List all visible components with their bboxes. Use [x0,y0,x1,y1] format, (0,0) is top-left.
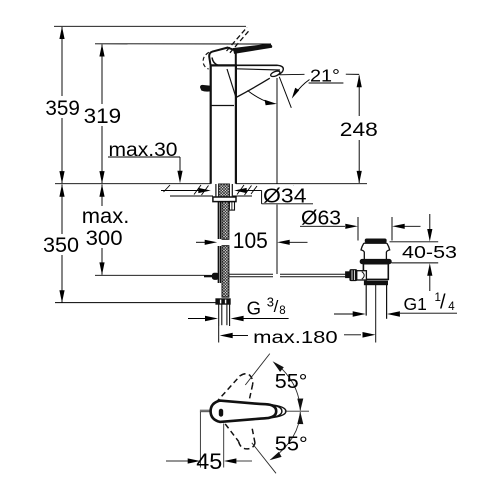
45 extension lines [199,412,201,468]
svg-text:/: / [440,291,446,313]
label 319 [81,104,123,128]
leader 21° [280,73,305,76]
55° rays [245,354,269,385]
deck section hatching [164,185,295,195]
svg-text:G: G [247,298,261,319]
dimension line 319 (x=102) [99,44,104,184]
spout top edge [236,64,278,66]
lever swing dashed arcs [203,52,209,69]
svg-text:300: 300 [86,227,123,250]
svg-text:55°: 55° [275,432,308,455]
dimension G3/8 arrows [188,316,289,322]
handle rotated -55° (dashed) [225,424,255,449]
dimension line 350 (x=62, below deck) [59,184,64,303]
label max. 300 [79,204,131,250]
svg-text:Ø34: Ø34 [263,185,307,207]
dimension line max.300 (x=102, below deck) [99,184,104,275]
extension line max300 / pop-up rod level [95,274,204,276]
left nub (temperature stop) [201,85,211,91]
lever front lip curve [212,58,218,66]
svg-text:248: 248 [340,120,378,141]
dimension max.180 arrows [220,332,376,338]
body joint line [211,105,234,107]
spout underside [236,78,270,97]
leader Ø63 [300,224,421,229]
svg-text:359: 359 [45,96,80,120]
lever blade (solid) [234,44,272,53]
threaded shank through deck [219,184,230,197]
40-53 dimension arrows (x=430) [427,214,432,291]
label Ø34 [263,185,309,207]
mounting nut [213,197,236,202]
waste body [363,264,388,280]
spout end cap [278,65,284,74]
handle set-screw mark [219,409,223,417]
handle rotated +55° (dashed) [216,374,253,403]
max.180 extension line (x=219) [218,326,220,343]
supply hose (braided) [222,202,229,240]
rod ball joint [204,275,213,277]
21° leader arc from text [295,80,310,95]
countertop deck top line [55,183,211,185]
svg-text:8: 8 [279,305,285,317]
dimension line 359 (x=62) [59,27,64,184]
21° angle: slant line [279,77,291,108]
svg-text:4: 4 [448,301,455,313]
waste flange [361,243,390,259]
lever raised (dashed) [227,27,251,53]
svg-text:350: 350 [43,234,79,257]
extension line spout top (319 ref, y=44) [95,43,271,45]
vertical extension from spout tip (x=277) [276,78,278,184]
handle centre reference line [285,410,309,412]
svg-text:21°: 21° [310,66,340,86]
G3/8 tube [219,304,230,326]
waste tailpipe [365,285,367,316]
svg-text:max.30: max.30 [109,140,178,161]
handle tip pointer lines [200,409,211,411]
svg-text:40-53: 40-53 [402,242,457,262]
spout inner slant [227,69,236,97]
dimension Ø34 arrows [161,188,313,204]
label 248 [336,116,381,141]
svg-text:max.: max. [82,204,130,228]
knurled adjuster knob [346,272,351,278]
svg-text:319: 319 [84,104,122,128]
label 359 [43,96,82,120]
svg-text:/: / [274,297,279,316]
label G1 1/4 [404,291,456,314]
label 45 [196,449,222,474]
countertop deck bottom line [170,195,213,197]
svg-text:45: 45 [196,449,222,474]
svg-text:105: 105 [233,228,268,253]
pop-up rod (vertical, left of hose) [218,202,220,283]
cartridge / lever base [209,48,236,65]
extension line 350 bottom [55,302,216,304]
rod guide bracket [229,202,234,211]
aerator ellipse [270,70,281,78]
pop-up rod horizontal [229,274,350,277]
label G3/8 [247,295,286,319]
svg-text:max.180: max.180 [253,327,338,347]
faucet body column [211,65,236,183]
svg-text:Ø63: Ø63 [301,208,341,230]
label 350 [40,234,81,257]
svg-text:G1: G1 [404,294,427,314]
40-53 extension lines [390,241,439,243]
extension line top (359 ref, y=26) [54,25,246,27]
dimension line 248 (x=359) [357,75,362,184]
dimension 105 [196,240,308,245]
handle body outline [211,401,277,422]
21° angle: arc with arrow [248,91,271,103]
hose nut fitting [216,299,230,304]
leader max.30 [108,157,183,183]
55° arc upper [278,365,301,411]
55° arc lower [273,412,300,458]
45 dimension arrows [166,458,252,463]
Ø63 extension lines [357,217,359,241]
dimension G1 1/4 arrows [334,311,457,317]
o-ring seal (dark band) [360,259,391,263]
svg-text:55°: 55° [275,370,308,393]
lock washer (dark band) [364,281,387,285]
knob connector [357,271,367,280]
label 105 [231,228,271,253]
waste plug cap [365,239,386,242]
handle end cap arcs [267,404,282,418]
